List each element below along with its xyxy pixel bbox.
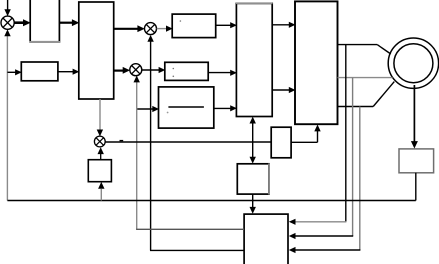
wire block G bottom into block H top	[250, 194, 256, 214]
wire current tap 1 vertical	[345, 45, 347, 222]
wire speed feedback bus horizontal	[7, 200, 415, 202]
block F angle compensation	[271, 127, 291, 158]
wire phase a from block D to motor	[338, 45, 391, 54]
wire branch up into block C bottom	[98, 182, 104, 201]
wire block T3 to block E1	[214, 105, 237, 111]
motor M outer circle	[388, 38, 438, 88]
wire phase c from block D to motor	[338, 82, 395, 107]
wire speed reference into S1 top	[4, 0, 10, 16]
wire block T1 to block E1	[216, 22, 237, 28]
block B tall decoupling block	[79, 2, 114, 99]
wire S1 to block A	[14, 19, 31, 26]
wire block A2 to block B	[58, 69, 79, 75]
wire branch to block A2	[7, 69, 21, 75]
wire angle branch up into block E1 bottom	[250, 117, 256, 142]
wire block F to block D bottom	[291, 125, 321, 143]
block A2 second input filter	[21, 62, 58, 81]
block H observer / transform (bottom clipped)	[244, 214, 288, 264]
block G angle integrator	[237, 163, 269, 194]
wire S3 to block T2	[142, 67, 165, 73]
wire branch to block T3	[137, 106, 159, 112]
wire current feedback up into S3 bottom	[134, 76, 140, 230]
block E1 inverse Park transform	[236, 3, 273, 116]
wire speed feedback vertical into S1 bottom	[4, 29, 10, 200]
wire current tap 3 vertical	[359, 107, 361, 251]
wire feedback horizontal to block H left lower	[150, 249, 244, 251]
wire block B bottom down into S4 top	[97, 99, 103, 136]
block C speed calculator	[88, 160, 111, 182]
wire block E1 to block D row 1	[272, 22, 295, 28]
wire angle branch down into block G top	[250, 142, 256, 164]
summing junction S3	[130, 64, 142, 76]
wire block A to block B	[60, 19, 80, 26]
wire current feedback up into S2 bottom	[147, 35, 153, 251]
wire block B to S2	[114, 25, 145, 32]
block L position sensor	[399, 149, 434, 173]
motor M inner circle	[394, 44, 433, 83]
block D inverter / SVPWM	[295, 1, 338, 124]
summing junction S4	[94, 136, 105, 147]
wire current tap 1 into block H right row 1	[289, 219, 347, 225]
block A speed regulator (top edge clipped)	[29, 0, 60, 42]
summing junction S1	[1, 16, 14, 29]
wire S2 to block T1	[157, 26, 173, 32]
wire block T2 to block E1	[208, 70, 237, 76]
wire current tap 2 into block H right row 2	[289, 233, 353, 239]
wire current tap 2 vertical	[352, 78, 354, 236]
summing junction S2	[145, 23, 157, 35]
block T3 transfer-function block with fraction bar	[159, 87, 214, 128]
wire block E1 to block D row 2	[272, 87, 295, 93]
wire block B to S3	[114, 67, 130, 74]
block T2 d-axis current regulator	[165, 62, 208, 80]
wire feedback horizontal to block H left upper	[136, 228, 244, 230]
block T1 q-axis current regulator	[172, 14, 216, 37]
wire motor shaft down into block L	[411, 85, 418, 149]
wire block C top up into S4 bottom	[98, 147, 104, 160]
wire S4 output to block F	[105, 141, 271, 142]
wire block L bottom down to feedback bus	[415, 173, 417, 201]
wire phase b from block D to motor	[338, 77, 393, 79]
wire current tap 3 into block H right row 3	[289, 247, 361, 253]
